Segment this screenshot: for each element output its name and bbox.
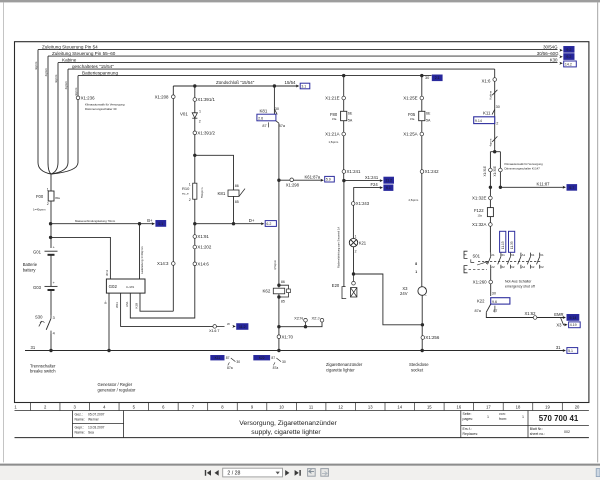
connector pin X1:241	[342, 170, 346, 174]
svg-text:62: 62	[540, 265, 544, 269]
svg-text:24V: 24V	[400, 291, 408, 296]
svg-text:2.6: 2.6	[258, 116, 263, 120]
fuse F80	[341, 111, 347, 120]
connector pin X1:30E	[499, 168, 503, 172]
svg-text:Replaces:: Replaces:	[463, 432, 479, 436]
title block	[15, 437, 589, 439]
svg-text:R10: R10	[182, 186, 190, 191]
wire D+	[195, 223, 262, 225]
svg-text:F05: F05	[408, 112, 416, 117]
svg-text:19: 19	[545, 404, 550, 409]
svg-text:15/54: 15/54	[285, 80, 297, 85]
wire E20 feed	[343, 181, 345, 287]
wire F24 branch	[354, 188, 381, 203]
svg-text:22: 22	[491, 265, 495, 269]
svg-text:87a: 87a	[475, 309, 482, 313]
svg-text:4,5qmm: 4,5qmm	[273, 259, 277, 270]
svg-text:AS1: AS1	[125, 301, 129, 307]
contact mirror K11	[211, 355, 224, 360]
wire X2 stub	[279, 322, 322, 327]
svg-text:+: +	[53, 281, 55, 285]
svg-text:K11: K11	[215, 356, 221, 360]
wire lamp to junction	[353, 247, 355, 274]
wire bus Pin 55-60	[48, 55, 558, 57]
wire Kabine drop to K11	[494, 69, 496, 152]
svg-text:62: 62	[531, 265, 535, 269]
svg-text:X1:256: X1:256	[425, 335, 439, 340]
svg-text:87: 87	[271, 356, 275, 360]
svg-text:K11:87: K11:87	[537, 182, 551, 187]
svg-text:2 / 28: 2 / 28	[227, 470, 240, 476]
svg-text:2.1: 2.1	[435, 76, 440, 80]
svg-text:pages:: pages:	[463, 417, 474, 421]
wire socket to ground	[421, 295, 423, 350]
svg-text:20: 20	[575, 404, 580, 409]
svg-text:1: 1	[47, 187, 49, 191]
svg-text:80a: 80a	[55, 196, 60, 200]
junction socket link	[421, 323, 424, 326]
svg-text:15a: 15a	[332, 117, 337, 121]
wire K81 87a to K62 and ground	[278, 123, 280, 287]
svg-text:X1:391/2: X1:391/2	[197, 130, 215, 135]
svg-text:15: 15	[427, 404, 432, 409]
connector pin X14:7	[213, 325, 217, 329]
svg-text:socket: socket	[411, 367, 424, 372]
svg-text:F122: F122	[474, 208, 484, 213]
svg-text:X1:243: X1:243	[356, 201, 370, 206]
net X1:241 cross reference box	[384, 177, 394, 183]
svg-text:S30: S30	[35, 315, 43, 320]
svg-text:supply, cigarette lighter: supply, cigarette lighter	[251, 429, 321, 436]
svg-text:9.1: 9.1	[386, 186, 391, 190]
svg-text:X1:202: X1:202	[197, 245, 211, 250]
svg-text:Werner: Werner	[88, 418, 100, 422]
svg-text:X1:241: X1:241	[365, 175, 379, 180]
wire to K61:87a reference	[279, 179, 322, 181]
svg-text:Masseverbindungsleitung 70mm: Masseverbindungsleitung 70mm	[75, 219, 116, 223]
connector pin X1:298	[290, 178, 294, 182]
wire drop of bus Batteriespannung	[77, 76, 79, 163]
svg-text:Seite:: Seite:	[463, 412, 472, 416]
svg-text:X1:30E: X1:30E	[493, 166, 497, 176]
svg-text:30: 30	[496, 105, 500, 109]
path number strip	[15, 402, 589, 404]
svg-text:5Wqmm: 5Wqmm	[200, 187, 204, 198]
svg-text:4qmm: 4qmm	[44, 68, 48, 77]
svg-text:K81: K81	[218, 191, 226, 196]
connector pin X1:6	[493, 78, 497, 82]
svg-text:30: 30	[425, 76, 429, 80]
svg-text:30: 30	[492, 292, 496, 296]
svg-text:Rückmeldeleitung zum Steuertei: Rückmeldeleitung zum Steuerteil 1A	[337, 227, 341, 268]
svg-text:K81: K81	[260, 108, 268, 113]
svg-text:Blatt Nr.:: Blatt Nr.:	[530, 427, 543, 431]
drawing border frame	[15, 42, 589, 403]
connector pin X2:N	[304, 318, 308, 322]
svg-text:5.1: 5.1	[568, 349, 573, 353]
svg-text:Not-Aus Schalter: Not-Aus Schalter	[505, 279, 532, 283]
svg-text:Gepr.:: Gepr.:	[75, 426, 85, 430]
svg-text:K21: K21	[359, 240, 367, 245]
wire drop of bus Pin 55-60	[47, 56, 49, 162]
svg-text:G01: G01	[33, 250, 42, 255]
svg-text:87: 87	[226, 356, 230, 360]
svg-text:6.2: 6.2	[266, 222, 271, 226]
net 15/54 cross reference box	[300, 83, 310, 89]
svg-text:Dämmerungsschalter Kl.147: Dämmerungsschalter Kl.147	[505, 167, 541, 171]
svg-text:battery: battery	[23, 267, 37, 272]
svg-text:X1:298: X1:298	[286, 183, 300, 188]
svg-text:W: W	[227, 322, 230, 326]
wire K11:87 to reference	[500, 186, 564, 188]
svg-text:87a: 87a	[227, 366, 233, 370]
svg-text:Steckdose: Steckdose	[409, 362, 429, 367]
svg-text:emergency shut off: emergency shut off	[505, 284, 535, 288]
svg-text:B−: B−	[104, 300, 108, 304]
svg-text:X1:241: X1:241	[347, 169, 361, 174]
svg-text:8: 8	[415, 262, 417, 266]
relay coil K81	[228, 190, 239, 196]
svg-text:05.07.2007: 05.07.2007	[88, 413, 105, 417]
viewer chrome: top strip	[0, 0, 600, 2]
svg-text:X1:25A: X1:25A	[403, 132, 417, 137]
svg-text:K11: K11	[483, 110, 491, 115]
svg-text:X14:6: X14:6	[197, 261, 209, 266]
svg-text:G02: G02	[109, 284, 118, 289]
svg-text:1: 1	[522, 415, 524, 419]
ground bus 31	[25, 350, 565, 352]
net F24 cross reference box	[384, 185, 393, 191]
svg-text:Name:: Name:	[75, 431, 85, 435]
svg-text:4qmm: 4qmm	[74, 87, 78, 96]
wire Zuendschloss 15/54	[173, 85, 296, 87]
svg-text:1,5qmm: 1,5qmm	[329, 140, 339, 144]
svg-text:eo_e: eo_e	[182, 192, 189, 196]
svg-text:4: 4	[53, 331, 55, 335]
junction on Zuendschloss wire at V01 branch	[193, 84, 196, 87]
junction parallel pins	[493, 150, 496, 153]
net B+ cross reference box	[156, 220, 166, 226]
svg-text:4qmm: 4qmm	[34, 61, 38, 70]
fuse F122	[487, 208, 493, 217]
wire G01 to G03	[50, 255, 52, 287]
svg-text:2: 2	[189, 198, 191, 202]
connector pin X1:32E	[489, 196, 493, 200]
svg-text:K61:87a: K61:87a	[305, 175, 321, 180]
indicator lamp K21	[349, 238, 357, 246]
svg-text:Gez.:: Gez.:	[75, 413, 83, 417]
wire K81 coil branch	[195, 155, 234, 190]
svg-text:1: 1	[355, 235, 357, 239]
svg-text:61: 61	[540, 253, 544, 257]
svg-text:Ers.f.:: Ers.f.:	[463, 427, 472, 431]
connector pin X1:21E	[342, 96, 346, 100]
net 31 cross reference box	[567, 348, 578, 354]
svg-text:B+: B+	[147, 218, 153, 223]
net W1 cross reference box	[237, 324, 248, 330]
svg-text:1: 1	[415, 270, 417, 274]
wire S30 to ground	[50, 334, 52, 351]
wire K81 coil to D+ node	[233, 196, 235, 223]
svg-text:13: 13	[368, 404, 373, 409]
svg-text:Kabine: Kabine	[488, 90, 492, 99]
svg-text:61: 61	[502, 253, 506, 257]
svg-text:V01: V01	[180, 111, 188, 116]
svg-text:4qmm: 4qmm	[64, 81, 68, 90]
svg-text:Kabine: Kabine	[62, 57, 77, 62]
connector pin X1:391/2	[193, 131, 197, 135]
svg-text:86: 86	[281, 280, 285, 284]
svg-text:11.13: 11.13	[501, 241, 505, 249]
svg-text:30: 30	[282, 360, 286, 364]
svg-text:002: 002	[564, 430, 570, 434]
emergency stop switch S01	[490, 253, 492, 257]
wire below F80	[343, 121, 345, 181]
svg-text:15a: 15a	[410, 117, 415, 121]
connector pin X1:236	[76, 96, 80, 100]
svg-text:2: 2	[496, 121, 498, 125]
junction on Zuendschloss wire at K81 branch	[273, 84, 276, 87]
cigarette lighter E20	[353, 274, 355, 281]
svg-text:Name:: Name:	[75, 418, 85, 422]
svg-text:X1:260: X1:260	[473, 280, 487, 285]
svg-text:Klimaautomatik für Versorgung: Klimaautomatik für Versorgung	[505, 162, 544, 166]
svg-text:9.14: 9.14	[475, 119, 482, 123]
svg-text:14: 14	[397, 404, 402, 409]
svg-text:F00: F00	[36, 194, 44, 199]
connector pin X1:70	[277, 335, 281, 339]
net X3 cross reference box	[569, 322, 581, 328]
connector pin X1:21A	[342, 132, 346, 136]
wire drop of bus Kabine	[57, 63, 59, 163]
junction X1:241 branch	[342, 179, 345, 182]
svg-text:X1:62: X1:62	[525, 311, 537, 316]
svg-text:K22: K22	[477, 298, 485, 303]
svg-text:31: 31	[556, 345, 561, 350]
wire battery feed	[50, 201, 52, 248]
svg-text:K3B: K3B	[135, 303, 139, 309]
svg-text:E20: E20	[332, 283, 340, 288]
svg-text:X1:70: X1:70	[282, 334, 294, 339]
connector pin X1:256	[421, 336, 425, 340]
svg-text:Batteriespannung: Batteriespannung	[82, 70, 118, 75]
net D+ cross reference box	[265, 221, 276, 227]
svg-text:X1:391/1: X1:391/1	[197, 97, 215, 102]
svg-text:A1: A1	[522, 253, 526, 257]
wire K62 to ground	[278, 294, 280, 351]
reference boxes above S01	[500, 231, 506, 252]
generator G02	[106, 279, 145, 293]
svg-text:Generator / Regler: Generator / Regler	[98, 382, 133, 387]
wire V01 column	[194, 86, 196, 224]
svg-text:A2: A2	[522, 265, 526, 269]
svg-text:X14:3: X14:3	[157, 261, 169, 266]
svg-text:cigarette lighter: cigarette lighter	[326, 367, 355, 372]
svg-text:K62: K62	[263, 288, 271, 293]
svg-text:5A: 5A	[348, 118, 353, 122]
viewer chrome: bottom toolbar	[0, 464, 600, 466]
svg-text:X1:21A: X1:21A	[325, 132, 339, 137]
connector pin X1:62	[533, 316, 537, 320]
svg-text:17: 17	[486, 404, 491, 409]
relay coil K62	[273, 288, 284, 294]
wire drop of bus Pin 54	[37, 50, 39, 163]
svg-text:Versorgung, Zigarettenanzünder: Versorgung, Zigarettenanzünder	[239, 420, 337, 427]
svg-text:4qmm: 4qmm	[54, 74, 58, 83]
svg-text:87a: 87a	[273, 366, 279, 370]
wire G02 B- to ground	[108, 293, 110, 350]
svg-text:11.33: 11.33	[510, 241, 514, 249]
svg-text:W11: W11	[115, 302, 119, 308]
wire down to F122	[489, 187, 491, 252]
svg-text:X1:21E: X1:21E	[325, 96, 339, 101]
wire G02 K3B	[140, 293, 173, 311]
svg-text:X1:32E: X1:32E	[472, 196, 486, 201]
connector pin X1:242	[420, 170, 424, 174]
wire X1:208 / X14:3 column	[172, 86, 174, 311]
svg-text:86: 86	[235, 184, 239, 188]
diode V01	[192, 113, 197, 118]
junction socket at ground	[421, 349, 424, 352]
svg-text:62: 62	[502, 265, 506, 269]
connector pin X1:202	[193, 245, 197, 249]
wire separation slash 2	[492, 136, 497, 141]
svg-text:87: 87	[262, 124, 266, 128]
connector pin X14:3	[172, 262, 176, 266]
wire bus Pin 54	[38, 49, 558, 51]
wire Ladeleitung	[139, 224, 141, 279]
svg-text:12: 12	[338, 404, 343, 409]
svg-text:21: 21	[491, 253, 495, 257]
junction X1:298 branch	[277, 179, 280, 182]
svg-text:1=40qmm: 1=40qmm	[33, 207, 46, 211]
contact mirror K22	[254, 355, 270, 360]
svg-text:30h1: 30h1	[105, 269, 109, 276]
wire K22 87a to X1:62	[486, 312, 564, 317]
svg-text:11.2: 11.2	[385, 179, 392, 183]
svg-text:570 700 41: 570 700 41	[539, 414, 579, 423]
svg-text:X1:32A: X1:32A	[472, 222, 486, 227]
svg-text:2: 2	[199, 119, 201, 123]
svg-text:4.19: 4.19	[570, 323, 577, 327]
wire separation slash	[492, 90, 497, 95]
svg-text:X1:25E: X1:25E	[403, 96, 417, 101]
svg-text:5.7: 5.7	[569, 186, 574, 190]
svg-text:Batterie: Batterie	[23, 262, 38, 267]
svg-text:6E: 6E	[348, 112, 353, 116]
connector pin X1:25A	[420, 132, 424, 136]
svg-text:Zuleitung Steuerung Pin 54: Zuleitung Steuerung Pin 54	[42, 44, 98, 49]
svg-text:11.2: 11.2	[239, 325, 246, 329]
junction to K81 coil branch	[193, 154, 196, 157]
wire drop of bus geschaltetes 15/54	[67, 69, 69, 162]
wire B+	[51, 223, 154, 225]
svg-text:61: 61	[531, 253, 535, 257]
svg-text:X1:242: X1:242	[425, 169, 439, 174]
svg-text:X1:236: X1:236	[81, 95, 95, 100]
svg-text:11: 11	[309, 404, 314, 409]
wire X3 branch	[561, 318, 567, 325]
net EMR cross reference box	[567, 314, 579, 320]
svg-text:5A: 5A	[426, 118, 431, 122]
svg-text:von:: von:	[499, 412, 506, 416]
socket X3 24V	[418, 287, 427, 296]
svg-text:X14:7: X14:7	[209, 328, 220, 333]
svg-text:1: 1	[487, 415, 489, 419]
wire fuse F80 branch	[343, 76, 345, 112]
svg-text:F24: F24	[371, 182, 379, 187]
svg-text:9.6: 9.6	[492, 300, 497, 304]
svg-text:31: 31	[31, 345, 36, 350]
svg-text:Zündschloß "15/54": Zündschloß "15/54"	[216, 80, 255, 85]
svg-text:13.03.2007: 13.03.2007	[88, 426, 105, 430]
svg-text:85: 85	[235, 200, 239, 204]
fuse F05	[419, 111, 425, 120]
svg-text:K22: K22	[259, 356, 265, 360]
net K11:87 cross reference box	[567, 185, 577, 191]
connector pin X1:243	[351, 202, 355, 206]
svg-text:30: 30	[236, 360, 240, 364]
svg-text:X1:31E: X1:31E	[483, 166, 487, 176]
svg-text:2: 2	[47, 202, 49, 206]
connector pin X1:32A	[489, 223, 493, 227]
wire to 11.2 reference	[344, 180, 381, 182]
svg-text:9.2: 9.2	[566, 55, 571, 59]
connector pin X1:260	[489, 280, 493, 284]
svg-text:geschaltetes "15/54": geschaltetes "15/54"	[72, 64, 114, 69]
S01 actuator symbols	[464, 251, 468, 258]
svg-text:Sea: Sea	[88, 431, 94, 435]
svg-text:4qmm: 4qmm	[488, 138, 492, 146]
svg-text:breake switch: breake switch	[30, 369, 56, 374]
wire parallel pin pair X1:31E X1:30E	[490, 151, 500, 153]
svg-text:2,5qmm: 2,5qmm	[409, 198, 419, 202]
wire S01 to K22	[490, 269, 492, 296]
svg-text:30/56–60G: 30/56–60G	[537, 51, 559, 56]
wire below F05	[421, 121, 423, 287]
wire fuse F05 branch	[421, 76, 423, 112]
svg-text:X2:J: X2:J	[311, 316, 319, 321]
svg-text:62: 62	[511, 265, 515, 269]
junction X2 branch	[277, 325, 280, 328]
svg-text:15a: 15a	[478, 213, 483, 217]
svg-text:X1:208: X1:208	[155, 94, 169, 99]
svg-text:3.1: 3.1	[301, 84, 306, 88]
svg-text:9.2: 9.2	[566, 48, 571, 52]
svg-text:Zigarettenanzünder: Zigarettenanzünder	[326, 362, 363, 367]
wire lamp column	[352, 203, 354, 238]
fuse F00	[50, 174, 52, 192]
svg-text:G03: G03	[33, 285, 42, 290]
wire bus geschaltetes 15/54	[68, 68, 495, 70]
svg-text:X1:6: X1:6	[481, 78, 491, 83]
wire bus Kabine	[58, 62, 558, 64]
svg-text:87: 87	[493, 309, 497, 313]
wire link to socket column	[354, 274, 423, 325]
svg-text:18: 18	[516, 404, 521, 409]
svg-text:16: 16	[457, 404, 462, 409]
svg-text:9.14: 9.14	[569, 316, 576, 320]
wire battery positive to G02	[51, 237, 111, 279]
connector pin X1:391/1	[193, 98, 197, 102]
svg-text:5.1: 5.1	[158, 222, 163, 226]
connector pin X1:91	[193, 235, 197, 239]
svg-text:10: 10	[279, 404, 284, 409]
svg-text:X2:N: X2:N	[294, 316, 303, 321]
svg-text:Zuleitung Steuerung Pin 55–60: Zuleitung Steuerung Pin 55–60	[52, 51, 116, 56]
junction lamp / socket link	[352, 272, 355, 275]
svg-text:X1:91: X1:91	[197, 234, 209, 239]
